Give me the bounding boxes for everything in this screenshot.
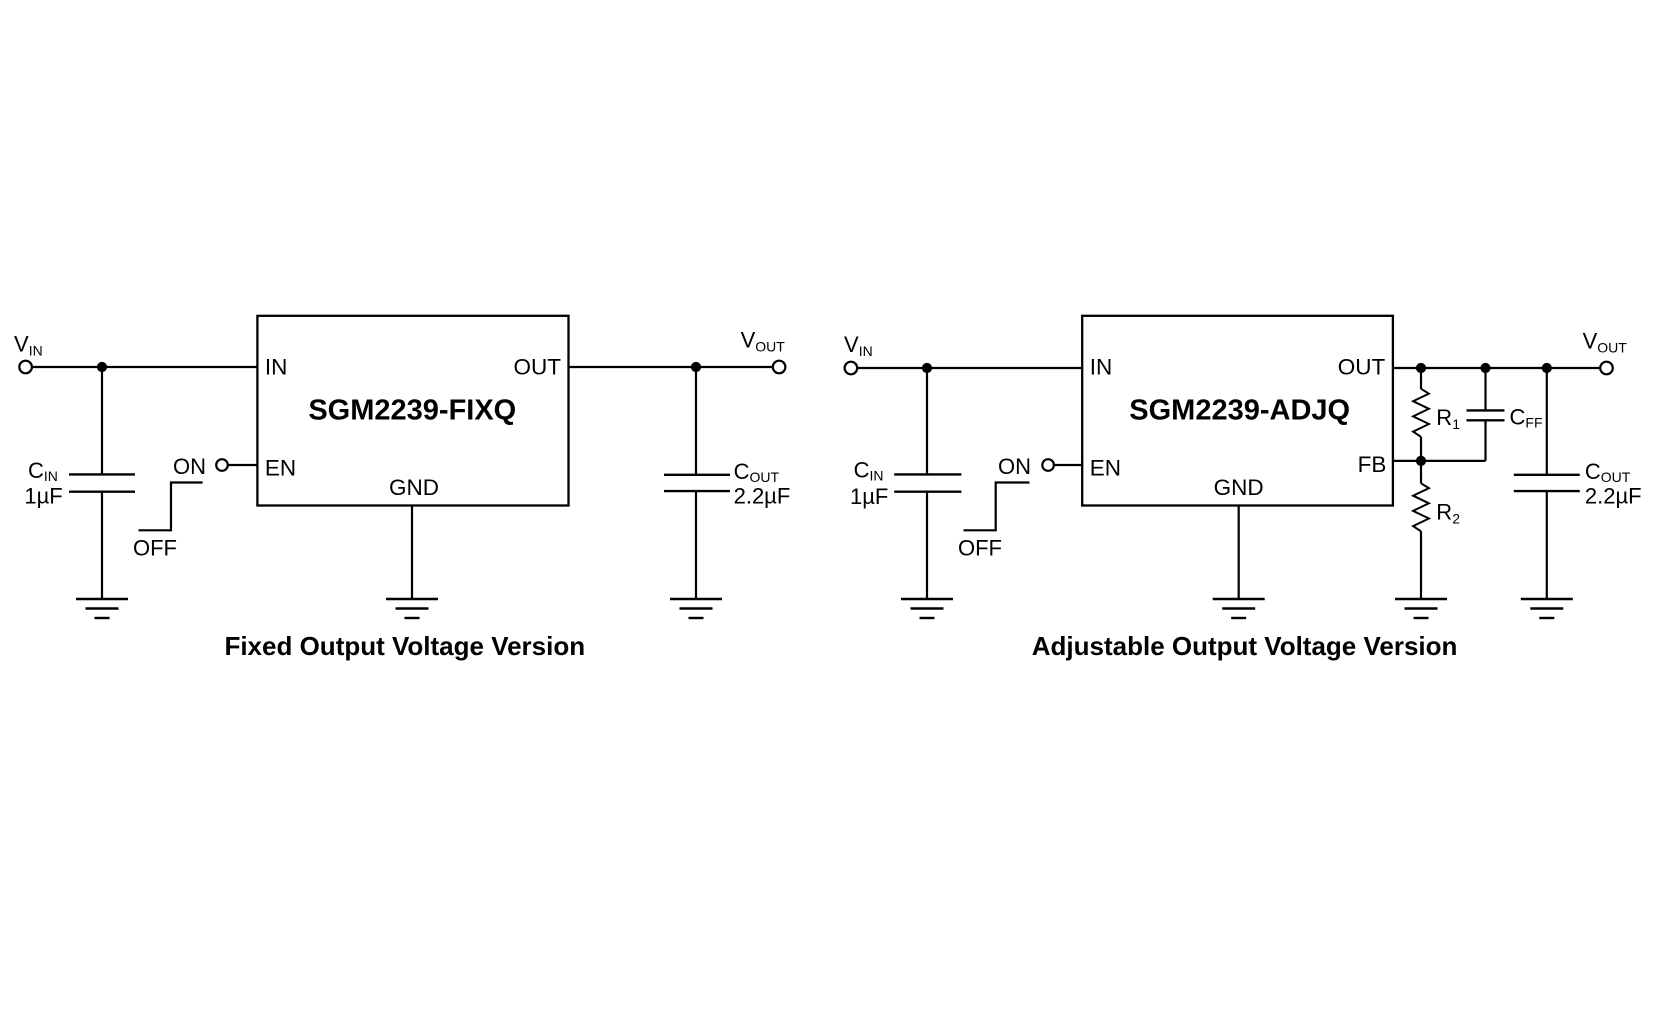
ground (COUT adj) (1521, 599, 1573, 618)
pin label EN (fixed) (265, 456, 296, 481)
ground (GND pin adj) (1213, 599, 1265, 618)
switch step waveform (fixed) (139, 483, 203, 531)
svg-text:OFF: OFF (133, 535, 177, 560)
wire CIN to ground (adj) (926, 492, 928, 599)
wire OUT node down to R1 (1420, 368, 1422, 389)
capacitor CIN (69, 474, 135, 491)
svg-text:FB: FB (1358, 452, 1387, 477)
node junction at CIN tap (adj) (922, 363, 932, 373)
ground (GND pin fixed) (386, 599, 438, 618)
svg-text:IN: IN (265, 355, 288, 380)
wire VIN to IN pin (32, 366, 258, 368)
caption Adjustable Output Voltage Version (1032, 631, 1458, 661)
node junction at CFF tap (1480, 363, 1490, 373)
value label COUT (adj) (1585, 459, 1631, 485)
wire FB pin to FB node (1393, 460, 1421, 462)
svg-text:GND: GND (1214, 475, 1264, 500)
svg-text:OFF: OFF (958, 535, 1002, 560)
wire VIN to IN pin (adj) (857, 367, 1082, 369)
IC U1 title SGM2239-FIXQ (308, 395, 516, 427)
wire COUT to ground (695, 491, 697, 599)
switch step waveform (adj) (964, 483, 1030, 531)
wire junction down to CIN (101, 367, 103, 474)
wire junction down to CIN (adj) (926, 368, 928, 474)
svg-text:Adjustable Output Voltage Vers: Adjustable Output Voltage Version (1032, 631, 1458, 661)
ground (CIN) (76, 599, 128, 618)
terminal EN drive circle (fixed) (216, 459, 228, 471)
wire OUT pin to VOUT (569, 366, 773, 368)
pin label GND (adj) (1214, 475, 1264, 500)
node junction at COUT tap (691, 362, 701, 372)
wire EN circle to EN pin (adj) (1054, 464, 1082, 466)
wire GND pin to ground (adj) (1238, 506, 1240, 600)
label VIN (fixed) (14, 332, 43, 359)
wire OUT pin to VOUT (adj) (1393, 367, 1600, 369)
pin label OUT (adj) (1338, 355, 1386, 380)
label ON (fixed) (173, 454, 206, 479)
svg-text:2.2µF: 2.2µF (734, 483, 791, 508)
wire CIN to ground (101, 492, 103, 599)
value label 1uF (24, 483, 62, 508)
pin label OUT (fixed) (514, 355, 562, 380)
pin label FB (adj) (1358, 452, 1387, 477)
ground (CIN adj) (901, 599, 953, 618)
wire GND pin to ground (411, 506, 413, 600)
value label 1uF (adj) (850, 484, 888, 509)
label CFF (1510, 404, 1543, 430)
pin label GND (fixed) (389, 475, 439, 500)
value label 2.2uF (fixed) (734, 483, 791, 508)
IC U1 SGM2239-FIXQ box (257, 316, 568, 506)
value label 2.2uF (adj) (1585, 483, 1642, 508)
wire CFF node down to CFF (1484, 368, 1486, 410)
IC U2 title SGM2239-ADJQ (1129, 395, 1350, 427)
terminal EN drive circle (adj) (1042, 459, 1054, 471)
terminal VIN (fixed) (19, 361, 32, 374)
pin label IN (adj) (1090, 355, 1113, 380)
node junction at COUT tap (adj) (1542, 363, 1552, 373)
wire CFF to FB wire (1484, 420, 1486, 461)
wire COUT node down to COUT (adj) (1546, 368, 1548, 475)
resistor R2 (1413, 483, 1429, 531)
svg-text:2.2µF: 2.2µF (1585, 483, 1642, 508)
terminal VIN (adj) (845, 362, 858, 375)
node junction FB (1416, 456, 1426, 466)
wire junction down to COUT (695, 367, 697, 475)
label OFF (fixed) (133, 535, 177, 560)
capacitor CFF (1467, 410, 1505, 420)
node junction at CIN tap (97, 362, 107, 372)
value label COUT (fixed) (734, 459, 780, 485)
wire FB node to CFF bottom (1421, 460, 1486, 462)
svg-text:EN: EN (265, 456, 296, 481)
node junction at R1 tap (1416, 363, 1426, 373)
svg-text:OUT: OUT (1338, 355, 1386, 380)
terminal VOUT (fixed) (773, 361, 786, 374)
svg-text:1µF: 1µF (850, 484, 888, 509)
wire FB node down to R2 (1420, 461, 1422, 484)
value label CIN (adj) (854, 457, 884, 483)
pin label IN (fixed) (265, 355, 288, 380)
terminal VOUT (adj) (1600, 362, 1613, 375)
wire R2 to ground (1420, 531, 1422, 599)
ground (R2) (1395, 599, 1447, 618)
svg-text:ON: ON (998, 454, 1031, 479)
label R2 (1436, 500, 1460, 527)
wire EN circle to EN pin (228, 464, 258, 466)
svg-text:Fixed Output Voltage Version: Fixed Output Voltage Version (224, 631, 585, 661)
svg-text:GND: GND (389, 475, 439, 500)
svg-text:SGM2239-FIXQ: SGM2239-FIXQ (308, 395, 516, 427)
label R1 (1436, 405, 1460, 432)
label VOUT (adj) (1583, 329, 1628, 356)
svg-text:1µF: 1µF (24, 483, 62, 508)
caption Fixed Output Voltage Version (224, 631, 585, 661)
label OFF (adj) (958, 535, 1002, 560)
resistor R1 (1413, 389, 1429, 437)
label VOUT (fixed) (741, 327, 786, 354)
pin label EN (adj) (1090, 456, 1121, 481)
svg-text:IN: IN (1090, 355, 1113, 380)
value label CIN (28, 458, 58, 484)
svg-text:OUT: OUT (514, 355, 562, 380)
capacitor COUT (fixed) (664, 475, 730, 491)
svg-text:ON: ON (173, 454, 206, 479)
IC U2 SGM2239-ADJQ box (1082, 316, 1393, 506)
label VIN (adj) (844, 332, 873, 359)
capacitor CIN (adj) (894, 474, 961, 491)
capacitor COUT (adj) (1514, 475, 1580, 491)
label ON (adj) (998, 454, 1031, 479)
wire R1 to FB node (1420, 437, 1422, 461)
svg-text:SGM2239-ADJQ: SGM2239-ADJQ (1129, 395, 1350, 427)
svg-text:EN: EN (1090, 456, 1121, 481)
wire COUT to ground (adj) (1546, 491, 1548, 599)
ground (COUT fixed) (670, 599, 722, 618)
